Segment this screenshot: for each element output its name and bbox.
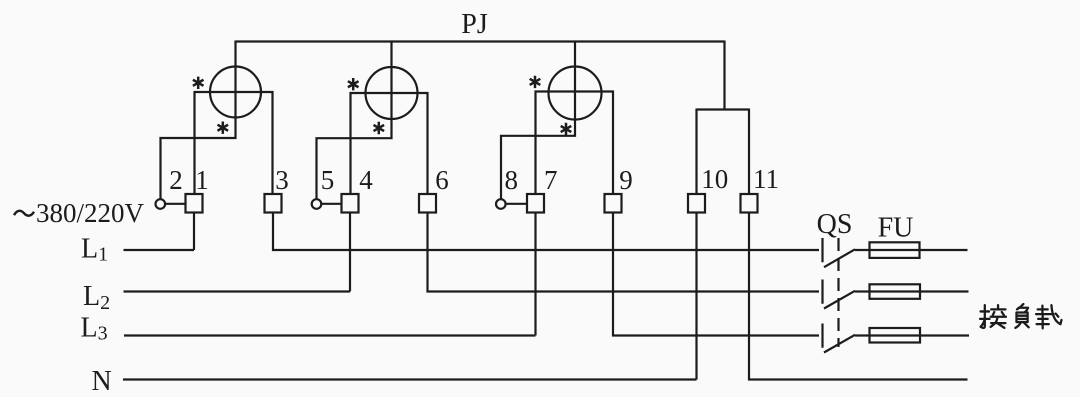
svg-text:3: 3 [275,165,289,195]
svg-text:QS: QS [817,209,853,240]
svg-text:10: 10 [701,164,728,194]
svg-text:1: 1 [195,165,209,195]
svg-text:L3: L3 [81,313,108,345]
svg-text:8: 8 [504,165,518,195]
svg-text:5: 5 [321,165,335,195]
svg-text:380/220V: 380/220V [36,198,145,228]
svg-text:2: 2 [169,165,183,195]
svg-text:FU: FU [878,213,914,244]
svg-text:6: 6 [435,165,449,195]
svg-text:L1: L1 [81,234,108,266]
svg-text:4: 4 [359,165,373,195]
svg-text:7: 7 [544,165,558,195]
svg-text:9: 9 [619,165,633,195]
svg-text:L2: L2 [83,281,110,314]
svg-text:PJ: PJ [461,9,488,40]
svg-text:N: N [92,366,112,397]
svg-text:11: 11 [753,164,779,194]
